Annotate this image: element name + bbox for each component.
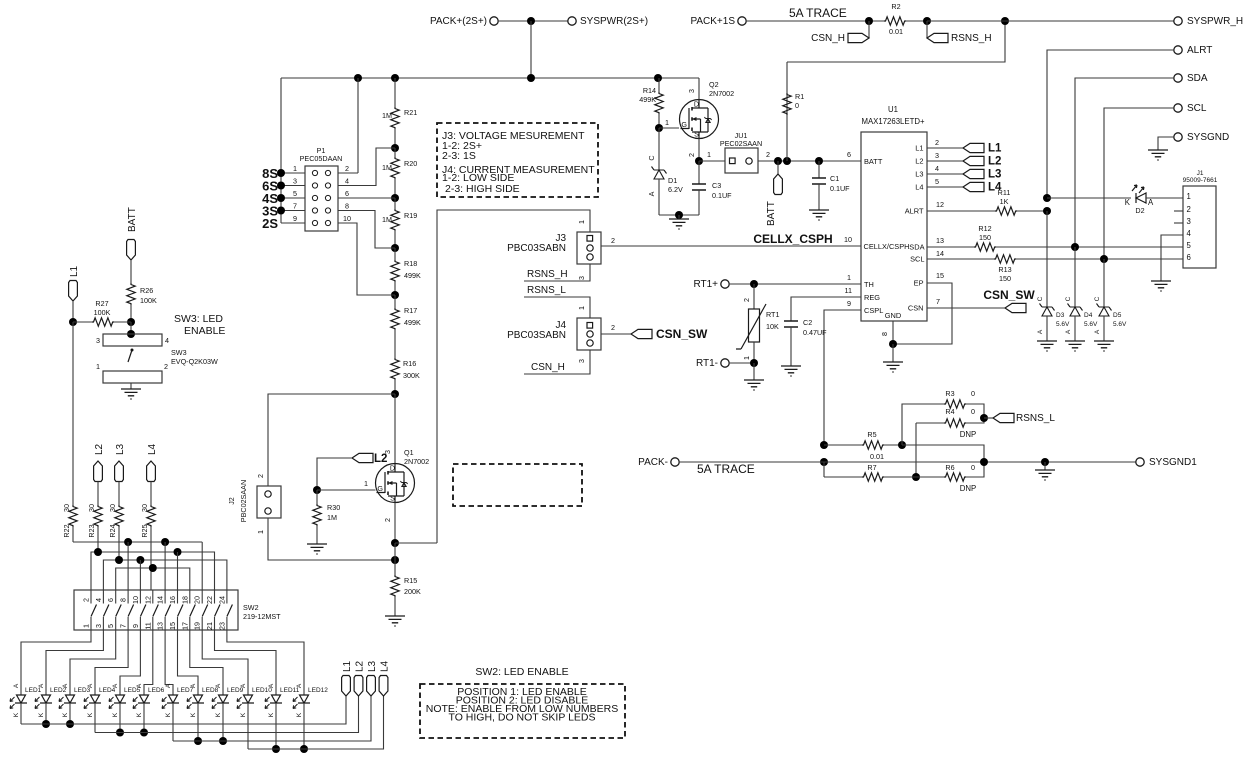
svg-text:A: A xyxy=(647,191,656,196)
transistor Q1 2N7002 xyxy=(394,394,396,463)
svg-text:A: A xyxy=(215,683,222,688)
svg-text:9: 9 xyxy=(131,624,140,628)
svg-text:1: 1 xyxy=(742,356,751,360)
svg-text:K: K xyxy=(13,712,20,717)
svg-text:D5: D5 xyxy=(1113,312,1122,319)
junction xyxy=(391,556,399,564)
svg-text:R3: R3 xyxy=(945,389,954,398)
zener D5 5.6V xyxy=(1103,259,1105,307)
SW2 position 4 xyxy=(127,590,129,630)
wire row L4 switches xyxy=(116,568,190,590)
wire xyxy=(659,214,699,216)
ground U1 xyxy=(892,344,894,362)
wire BATT net xyxy=(758,160,861,162)
J1 pin3 stub xyxy=(1174,222,1183,224)
wire R16 to J2 xyxy=(268,394,395,486)
svg-text:2: 2 xyxy=(766,150,770,159)
svg-text:CSN_H: CSN_H xyxy=(811,33,845,44)
node L2 flag gate xyxy=(352,453,373,462)
svg-text:MAX17263LETD+: MAX17263LETD+ xyxy=(861,117,925,126)
svg-text:L3: L3 xyxy=(988,169,1001,181)
svg-text:SYSPWR_H: SYSPWR_H xyxy=(1187,16,1243,27)
svg-text:RSNS_H: RSNS_H xyxy=(527,269,568,280)
resistor R11 1K xyxy=(927,210,995,212)
svg-text:150: 150 xyxy=(979,233,991,242)
svg-text:219-12MST: 219-12MST xyxy=(243,612,281,621)
svg-text:DNP: DNP xyxy=(960,484,976,493)
wire P1 pin10 xyxy=(338,223,395,295)
wires SW2 to LEDs right xyxy=(165,630,173,695)
svg-text:24: 24 xyxy=(217,596,226,604)
connector J3 PBC03SABN xyxy=(577,232,601,264)
resistor R6 0 DNP xyxy=(916,476,944,478)
svg-text:SW2: LED ENABLE: SW2: LED ENABLE xyxy=(475,666,568,678)
svg-text:RT1: RT1 xyxy=(766,310,779,319)
wire xyxy=(498,20,568,22)
svg-text:1M: 1M xyxy=(382,111,392,120)
LED3 xyxy=(59,695,76,709)
svg-text:2: 2 xyxy=(383,518,392,522)
connector J4 PBC03SABN xyxy=(577,318,601,350)
svg-text:8: 8 xyxy=(119,598,128,602)
svg-text:D1: D1 xyxy=(668,176,677,185)
svg-text:1: 1 xyxy=(707,150,711,159)
wire xyxy=(927,20,1174,22)
svg-text:TO HIGH, DO NOT SKIP LEDS: TO HIGH, DO NOT SKIP LEDS xyxy=(448,712,595,724)
svg-text:0: 0 xyxy=(971,407,975,416)
LED9 xyxy=(212,695,229,709)
svg-text:R26: R26 xyxy=(140,286,153,295)
svg-text:5: 5 xyxy=(935,177,939,186)
resistor R14 xyxy=(658,78,660,92)
svg-text:7: 7 xyxy=(293,202,297,211)
svg-text:PACK+(2S+): PACK+(2S+) xyxy=(430,16,487,27)
svg-text:20: 20 xyxy=(193,596,202,604)
svg-text:RT1+: RT1+ xyxy=(693,279,718,290)
svg-text:2-3: HIGH SIDE: 2-3: HIGH SIDE xyxy=(445,183,520,195)
node SYSPWR(2S+) xyxy=(568,17,576,25)
svg-text:A: A xyxy=(1148,198,1154,207)
svg-text:8: 8 xyxy=(345,202,349,211)
svg-text:R11: R11 xyxy=(998,188,1011,197)
svg-text:K: K xyxy=(136,712,143,717)
svg-text:3: 3 xyxy=(935,151,939,160)
svg-text:2N7002: 2N7002 xyxy=(404,457,429,466)
svg-text:Q2: Q2 xyxy=(709,80,719,89)
svg-text:4: 4 xyxy=(345,177,349,186)
svg-text:PBC02SAAN: PBC02SAAN xyxy=(239,480,248,522)
resistor R30 1M xyxy=(313,504,321,526)
node SYSGND xyxy=(1174,133,1182,141)
svg-text:1: 1 xyxy=(96,362,100,371)
svg-text:ENABLE: ENABLE xyxy=(184,325,225,337)
svg-text:CSN_SW: CSN_SW xyxy=(983,288,1035,302)
LED12 xyxy=(293,695,310,709)
svg-text:L2: L2 xyxy=(988,156,1001,168)
transistor Q2 2N7002 xyxy=(680,100,719,139)
wire cathode row xyxy=(247,703,249,749)
svg-text:D: D xyxy=(694,100,699,109)
svg-text:1: 1 xyxy=(293,164,297,173)
wire CSN to flag xyxy=(927,307,1005,309)
svg-text:G: G xyxy=(377,484,383,493)
svg-text:15: 15 xyxy=(936,271,944,280)
svg-text:2: 2 xyxy=(687,153,696,157)
svg-text:4: 4 xyxy=(94,598,103,602)
svg-text:A: A xyxy=(136,683,143,688)
svg-text:100K: 100K xyxy=(94,308,111,317)
svg-text:30: 30 xyxy=(108,504,117,512)
svg-text:L3: L3 xyxy=(115,443,126,455)
svg-text:SW2: SW2 xyxy=(243,603,259,612)
svg-text:150: 150 xyxy=(999,274,1011,283)
LED4 xyxy=(84,695,101,709)
svg-text:RSNS_H: RSNS_H xyxy=(951,33,992,44)
svg-text:3: 3 xyxy=(687,89,696,93)
svg-text:R19: R19 xyxy=(404,211,417,220)
svg-text:K: K xyxy=(112,712,119,717)
wire source xyxy=(698,139,700,162)
wire xyxy=(530,21,532,78)
svg-text:13: 13 xyxy=(156,622,165,630)
SW2 position 8 xyxy=(177,590,179,630)
svg-text:L1: L1 xyxy=(69,265,80,277)
svg-text:15: 15 xyxy=(168,622,177,630)
svg-text:C: C xyxy=(1094,296,1101,301)
svg-text:R27: R27 xyxy=(95,299,108,308)
svg-text:19: 19 xyxy=(193,622,202,630)
SW2 position 2 xyxy=(102,590,104,630)
svg-text:L2: L2 xyxy=(355,660,366,672)
wire R3 branch xyxy=(902,404,944,445)
wire drain xyxy=(698,78,700,100)
SW2 position 11 xyxy=(214,590,216,630)
svg-text:0: 0 xyxy=(971,389,975,398)
wire cathode row xyxy=(20,703,22,724)
svg-text:R23: R23 xyxy=(87,524,96,537)
svg-text:R4: R4 xyxy=(945,407,954,416)
svg-text:K: K xyxy=(62,712,69,717)
svg-text:PBC03SABN: PBC03SABN xyxy=(507,243,566,254)
svg-text:1: 1 xyxy=(256,530,265,534)
svg-text:K: K xyxy=(190,712,197,717)
svg-text:SYSGND: SYSGND xyxy=(1187,132,1229,143)
svg-text:GND: GND xyxy=(885,311,901,320)
node SCL xyxy=(1174,104,1182,112)
svg-text:ALRT: ALRT xyxy=(905,207,924,216)
resistor R24 30 xyxy=(118,482,120,506)
svg-text:R18: R18 xyxy=(404,259,417,268)
LED D2 xyxy=(1047,197,1131,199)
resistor R23 30 xyxy=(97,482,99,506)
svg-text:R24: R24 xyxy=(108,524,117,537)
wire gate Q2 xyxy=(659,127,679,129)
svg-text:R13: R13 xyxy=(998,265,1011,274)
svg-text:LED12: LED12 xyxy=(308,687,328,694)
svg-text:BATT: BATT xyxy=(127,207,138,232)
node ALRT xyxy=(1174,46,1182,54)
wire row L3 switches xyxy=(103,560,226,590)
node RSNS_L flag xyxy=(984,417,993,419)
wire CSPL down xyxy=(823,462,825,477)
wire xyxy=(280,78,282,223)
svg-text:499K: 499K xyxy=(404,271,421,280)
svg-text:3: 3 xyxy=(96,336,100,345)
svg-text:R14: R14 xyxy=(643,86,656,95)
SW2 position 10 xyxy=(201,590,203,630)
svg-text:D4: D4 xyxy=(1084,312,1093,319)
svg-text:BATT: BATT xyxy=(864,157,883,166)
capacitor C1 0.1UF xyxy=(818,161,820,178)
svg-text:R20: R20 xyxy=(404,159,417,168)
svg-text:2-3: 1S: 2-3: 1S xyxy=(442,150,476,162)
svg-text:2: 2 xyxy=(611,323,615,332)
svg-text:22: 22 xyxy=(205,596,214,604)
wire P1 pin8 xyxy=(338,211,395,249)
svg-text:RSNS_L: RSNS_L xyxy=(1016,413,1055,424)
resistor R21 xyxy=(394,78,396,107)
svg-text:0.01: 0.01 xyxy=(889,27,903,36)
SW2 position 1 xyxy=(90,590,92,630)
svg-text:A: A xyxy=(165,683,172,688)
svg-text:3: 3 xyxy=(94,624,103,628)
svg-text:S: S xyxy=(694,130,699,139)
svg-text:J2: J2 xyxy=(227,497,236,505)
resistor R12 150 xyxy=(927,246,974,248)
LED8 xyxy=(187,695,204,709)
ground xyxy=(678,215,680,219)
resistor R16 xyxy=(394,345,396,358)
ground R15 xyxy=(385,616,405,626)
svg-text:2: 2 xyxy=(345,164,349,173)
svg-text:SCL: SCL xyxy=(1187,103,1207,114)
LED7 xyxy=(162,695,179,709)
svg-text:K: K xyxy=(165,712,172,717)
ground SW3 xyxy=(130,383,132,389)
SW2 position 3 xyxy=(115,590,117,630)
svg-text:0.01: 0.01 xyxy=(870,452,884,461)
svg-text:CELLX/CSPH: CELLX/CSPH xyxy=(864,242,910,251)
svg-text:PACK-: PACK- xyxy=(638,457,668,468)
svg-text:D3: D3 xyxy=(1056,312,1065,319)
svg-text:1M: 1M xyxy=(382,163,392,172)
svg-text:5: 5 xyxy=(106,624,115,628)
jumper JU1 PEC02SAAN xyxy=(699,160,725,162)
wires SW2 to LEDs left xyxy=(21,630,91,695)
svg-text:A: A xyxy=(190,683,197,688)
svg-text:G: G xyxy=(681,120,687,129)
svg-text:1M: 1M xyxy=(327,513,337,522)
svg-text:K: K xyxy=(215,712,222,717)
svg-text:R12: R12 xyxy=(978,224,991,233)
svg-text:10: 10 xyxy=(131,596,140,604)
svg-text:PACK+1S: PACK+1S xyxy=(690,16,735,27)
svg-text:SDA: SDA xyxy=(909,243,924,252)
node CSN_SW flag xyxy=(1005,303,1026,312)
J1 pin4 ground xyxy=(1161,235,1183,281)
capacitor C2 0.47UF xyxy=(784,321,798,327)
wire 5A TRACE xyxy=(746,20,884,22)
svg-text:10K: 10K xyxy=(766,322,779,331)
SW2 position 7 xyxy=(164,590,166,630)
wire CSPL xyxy=(824,310,861,445)
svg-text:3: 3 xyxy=(293,177,297,186)
svg-text:30: 30 xyxy=(62,504,71,512)
resistor R27 100K xyxy=(73,321,92,323)
svg-text:4: 4 xyxy=(165,336,169,345)
SW2 position 12 xyxy=(226,590,228,630)
svg-text:16: 16 xyxy=(168,596,177,604)
svg-text:0: 0 xyxy=(971,463,975,472)
wire cathode row xyxy=(172,703,174,741)
wire P1 pin2 to bus xyxy=(338,172,358,174)
svg-text:SW3: LED: SW3: LED xyxy=(174,313,223,325)
svg-text:R6: R6 xyxy=(945,463,954,472)
svg-text:2S: 2S xyxy=(262,216,278,231)
LED5 xyxy=(109,695,126,709)
svg-text:3: 3 xyxy=(577,276,586,280)
svg-text:4: 4 xyxy=(935,164,939,173)
svg-text:PEC02SAAN: PEC02SAAN xyxy=(720,139,762,148)
svg-text:6: 6 xyxy=(847,150,851,159)
wire gate xyxy=(317,489,376,491)
svg-text:CELLX_CSPH: CELLX_CSPH xyxy=(753,232,832,246)
wire L1 column xyxy=(72,322,74,505)
resistor R4 0 DNP xyxy=(916,422,944,424)
svg-text:1K: 1K xyxy=(1000,197,1009,206)
wire 2S+ bus xyxy=(281,77,699,79)
resistor R18 xyxy=(394,248,396,260)
svg-text:J1: J1 xyxy=(1197,170,1204,177)
svg-text:SDA: SDA xyxy=(1187,73,1208,84)
resistor R25 30 xyxy=(150,482,152,506)
node BATT flag xyxy=(777,161,779,174)
svg-text:2: 2 xyxy=(164,362,168,371)
svg-text:CSN_H: CSN_H xyxy=(531,362,565,373)
svg-text:11: 11 xyxy=(143,622,152,629)
svg-text:100K: 100K xyxy=(140,296,157,305)
svg-text:3: 3 xyxy=(1187,217,1191,226)
wire J2 pin1 xyxy=(268,518,395,560)
svg-text:K: K xyxy=(87,712,94,717)
svg-text:R22: R22 xyxy=(62,524,71,537)
svg-text:6: 6 xyxy=(345,189,349,198)
svg-text:L1: L1 xyxy=(915,144,923,153)
resistor R15 200K xyxy=(391,575,399,597)
svg-text:5A TRACE: 5A TRACE xyxy=(697,462,755,476)
svg-text:R15: R15 xyxy=(404,576,417,585)
wire PACK- 5A TRACE xyxy=(679,461,1136,463)
svg-text:RT1-: RT1- xyxy=(696,358,718,369)
svg-text:18: 18 xyxy=(180,596,189,604)
wire cathode row xyxy=(94,703,96,733)
svg-text:2: 2 xyxy=(611,236,615,245)
resistor R19 xyxy=(394,198,396,209)
svg-text:U1: U1 xyxy=(888,105,898,114)
svg-text:4: 4 xyxy=(1187,229,1192,238)
svg-text:6: 6 xyxy=(106,598,115,602)
svg-text:1: 1 xyxy=(577,306,586,310)
svg-text:11: 11 xyxy=(845,286,852,295)
svg-text:K: K xyxy=(1125,198,1131,207)
resistor R2 0.01 xyxy=(884,17,906,25)
svg-text:A: A xyxy=(1094,329,1101,334)
svg-text:SYSGND1: SYSGND1 xyxy=(1149,457,1197,468)
wire row L1 switches xyxy=(73,541,202,543)
wire xyxy=(824,444,862,446)
svg-text:L4: L4 xyxy=(147,443,158,455)
ground xyxy=(1044,462,1046,470)
svg-text:21: 21 xyxy=(205,622,214,630)
svg-text:TH: TH xyxy=(864,280,874,289)
svg-text:A: A xyxy=(268,683,275,688)
svg-text:10: 10 xyxy=(343,214,351,223)
svg-text:R16: R16 xyxy=(403,359,416,368)
svg-text:9: 9 xyxy=(847,299,851,308)
svg-text:BATT: BATT xyxy=(766,201,777,226)
svg-text:5: 5 xyxy=(1187,241,1192,250)
svg-text:R17: R17 xyxy=(404,306,417,315)
svg-text:A: A xyxy=(87,683,94,688)
svg-text:A: A xyxy=(1065,329,1072,334)
node SYSGND1 xyxy=(1136,458,1144,466)
resistor R3 0 xyxy=(944,400,966,408)
wire Q1 source to CSPH xyxy=(395,542,437,544)
wire R1 to SYSPWR_H xyxy=(787,21,1005,62)
svg-text:RSNS_L: RSNS_L xyxy=(527,285,566,296)
svg-text:200K: 200K xyxy=(404,587,421,596)
junction xyxy=(527,17,535,25)
junction xyxy=(820,441,828,449)
svg-text:K: K xyxy=(268,712,275,717)
svg-text:5.6V: 5.6V xyxy=(1113,321,1127,328)
node L1 bottom flag xyxy=(342,676,351,697)
svg-text:L2: L2 xyxy=(374,453,387,465)
wire R4 to R7 row xyxy=(915,423,917,477)
svg-text:C: C xyxy=(647,155,656,160)
note J3/J4 measurement xyxy=(437,123,598,197)
ground RT1 xyxy=(753,363,755,380)
resistor R1 xyxy=(786,93,788,161)
svg-text:C: C xyxy=(1037,296,1044,301)
node RSNS_H flag xyxy=(926,21,928,38)
svg-text:SYSPWR(2S+): SYSPWR(2S+) xyxy=(580,16,648,27)
svg-text:2: 2 xyxy=(1187,205,1191,214)
svg-text:DNP: DNP xyxy=(960,430,976,439)
svg-text:LED6: LED6 xyxy=(148,687,165,694)
svg-text:Q1: Q1 xyxy=(404,448,414,457)
svg-text:A: A xyxy=(240,683,247,688)
svg-text:30: 30 xyxy=(87,504,96,512)
svg-text:499K: 499K xyxy=(404,318,421,327)
SW2 position 6 xyxy=(152,590,154,630)
wire xyxy=(902,445,984,462)
svg-text:R25: R25 xyxy=(140,524,149,537)
svg-text:1: 1 xyxy=(847,273,851,282)
svg-text:D2: D2 xyxy=(1135,206,1144,215)
svg-text:K: K xyxy=(240,712,247,717)
resistor R7 xyxy=(824,476,862,478)
svg-text:C: C xyxy=(1065,296,1072,301)
svg-text:C1: C1 xyxy=(830,174,839,183)
svg-text:CSN: CSN xyxy=(908,304,924,313)
svg-text:A: A xyxy=(62,683,69,688)
zener D3 5.6V xyxy=(1046,211,1048,307)
wire row L2 switches xyxy=(91,552,215,590)
svg-text:L2: L2 xyxy=(94,443,105,455)
ground R30 xyxy=(307,544,327,554)
wire CSPH loop xyxy=(437,210,590,543)
